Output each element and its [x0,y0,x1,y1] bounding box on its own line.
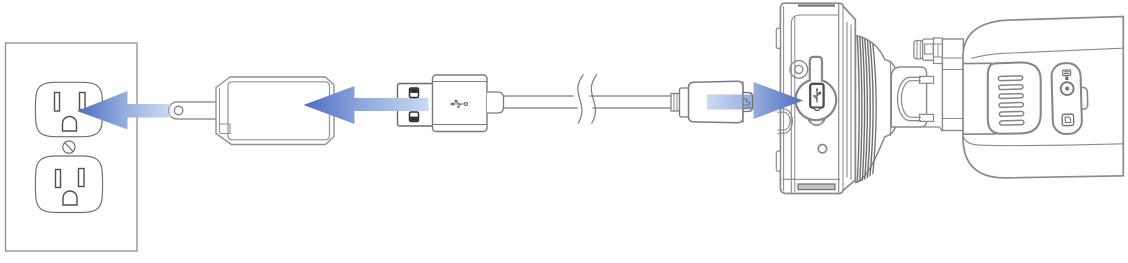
plate top slot [798,4,835,6]
usb-a body [433,75,488,132]
cable break squiggle left [578,75,584,124]
micro usb tip overdraw [743,81,753,122]
blade hole [174,106,183,115]
camera neck [942,39,963,131]
camera hinge coupling [934,38,943,64]
speaker panel [988,62,1041,133]
plug blade [169,102,224,119]
body top seam [971,48,1123,58]
plate left tabs [776,28,780,49]
usb-a metal shell [398,84,434,127]
bottom receptacle left slot [56,170,61,188]
button pill [1051,63,1082,134]
plate D ring [790,61,808,79]
fork horseshoe [898,77,921,120]
camera body [963,17,1123,178]
adapter body [216,77,334,145]
usb-a body inner lines [433,81,487,83]
arrow A3 to camera port [707,82,803,119]
usb-a neck [487,92,504,113]
bracket fork [891,67,942,131]
adapter bottom-left step [220,124,232,134]
wall plate [6,43,138,251]
body bottom seam [963,135,1123,146]
micro usb tip [743,93,753,112]
bottom receptacle ground hole [63,191,77,205]
usb trident icon [450,100,468,108]
top receptacle ground hole [63,117,77,131]
cable right segment [590,96,672,108]
plate cable hook [778,109,793,134]
micro connector body [689,81,744,122]
bottom receptacle face [35,156,102,213]
fork clamp arms [920,76,934,83]
plate bottom band [782,178,840,180]
side tab pill [1078,87,1088,109]
keyhole slot [796,57,837,120]
adapter left edge line [219,88,221,133]
top receptacle face [35,82,102,136]
micro connector collar [680,88,690,117]
screw [63,141,75,153]
plate inner face lines [783,6,785,191]
usb-a contact upper [410,88,419,98]
panel seam stubs [964,62,993,64]
top receptacle left slot [55,93,60,112]
adapter front face [228,82,330,140]
bottom receptacle right slot [79,169,85,187]
thumbscrew [914,39,935,60]
grille [998,76,1024,125]
mount bell [847,22,896,183]
power port [810,84,823,108]
camera mount plate [776,3,855,193]
led button [1061,82,1074,95]
usb-a contact lower [410,112,419,122]
arrow A1 tail fade [169,104,172,117]
keyhole lower bump [808,118,825,125]
sim icon [1063,70,1071,80]
plate screw hole [818,145,826,153]
micro connector ferrule [671,94,680,112]
sd icon [1062,114,1074,126]
cable left segment [504,96,578,108]
plate face right edge [838,4,840,193]
cable break squiggle right [591,75,597,124]
arrow A1 to outlet [77,91,169,130]
arrow A2 to adapter [304,86,429,124]
top receptacle right slot [80,93,86,110]
